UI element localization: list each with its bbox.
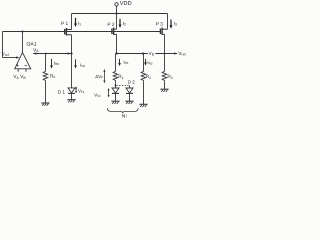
wire op-amp output [22,32,24,53]
node VDD rail junction [115,12,117,14]
node B wire to output [117,53,178,55]
wire VDD to rail [116,6,118,13]
wire node B down to R2 [143,54,145,72]
wire D1 to ground [71,93,73,99]
svg-text:VF2: VF2 [94,92,101,98]
svg-text:R2: R2 [146,74,151,80]
current arrow IR0 [51,59,53,67]
svg-text:R0: R0 [50,74,55,80]
ground (R0) [41,103,49,106]
svg-text:VDD: VDD [120,1,132,7]
svg-text:ΔVF: ΔVF [95,74,103,80]
wire P2 source [116,14,118,30]
measure arrow VF1 [75,87,77,92]
resistor R1 [113,71,118,81]
svg-text:P 1: P 1 [61,21,68,27]
wire P1 drain [71,35,73,54]
op-amp input stubs [17,69,19,72]
ground (R2) [139,104,147,107]
wire D2 to ground [129,93,131,101]
ground (D2) [125,101,133,104]
wire R0 to ground [45,81,47,103]
wire P2 drain [116,34,118,53]
current arrow IVA [75,59,77,66]
svg-text:VB: VB [149,51,155,57]
wire R1 to diode junction [115,81,117,88]
wire P3 source [167,14,169,30]
wire node B down to R1 [115,54,117,72]
diode D1 [68,88,75,94]
svg-text:I3: I3 [174,21,177,27]
svg-text:VA VB: VA VB [13,74,26,81]
svg-text:R3: R3 [167,74,172,80]
ground (diode1) [111,101,119,104]
wire node A to R0 [45,54,47,72]
svg-text:I1: I1 [78,21,81,27]
wire Vref input leg [2,32,4,58]
wire dashed link to D2 [116,84,129,86]
diode D2 [129,85,131,88]
opamp plus mark [16,64,27,67]
wire R3 to ground [164,81,166,89]
wire Vout node down to R3 [164,54,166,72]
svg-text:Vref: Vref [2,52,9,58]
wire top supply rail [72,13,168,15]
svg-text:D 2: D 2 [128,80,135,85]
resistor R0 [43,71,48,81]
svg-text:IR0: IR0 [54,61,59,67]
measure arrow dVF (across R1) [103,71,105,82]
text VB node (white backed) [148,50,156,55]
current arrow I1 [75,18,77,25]
ground (D1) [67,100,75,103]
svg-text:Vref: Vref [178,51,185,57]
svg-text:IR1: IR1 [123,60,128,66]
current arrow I2 [119,19,121,26]
svg-text:R1: R1 [118,74,123,80]
svg-text:P 2: P 2 [107,22,114,28]
transistor P2 [112,28,117,36]
transistor P1 [65,28,72,36]
opamp minus mark [25,64,27,66]
op-amp OA1 [15,52,31,68]
ground (R3) [160,89,168,92]
svg-text:VA: VA [33,47,39,53]
svg-text:I2: I2 [123,21,126,27]
svg-text:IVA: IVA [80,62,86,68]
svg-text:D 1: D 1 [58,90,66,95]
current arrow IR1 [119,59,121,64]
node op-amp output junction [22,31,24,33]
resistor R3 [162,71,167,81]
node A wire (VA) [33,53,71,55]
diode (first of N) [112,88,119,93]
resistor R2 [141,71,146,81]
svg-text:VF1: VF1 [78,88,85,94]
brace N diodes [107,108,138,113]
wire P1 source [71,14,73,30]
wire P3 drain [164,34,166,53]
current arrow IR2 [145,59,147,63]
svg-text:IR2: IR2 [147,60,152,66]
transistor P3 [160,28,167,36]
VDD terminal [115,3,118,6]
svg-text:N↑: N↑ [122,114,128,120]
wire R2 to ground [143,81,145,104]
svg-text:OA1: OA1 [27,41,37,47]
wire gate bus [3,31,161,33]
svg-text:P 3: P 3 [156,22,163,28]
wire node A down to D1 [71,54,73,88]
current arrow I3 [170,20,172,27]
wire diode1 to ground [115,93,117,101]
measure arrow VF2 [108,89,110,96]
